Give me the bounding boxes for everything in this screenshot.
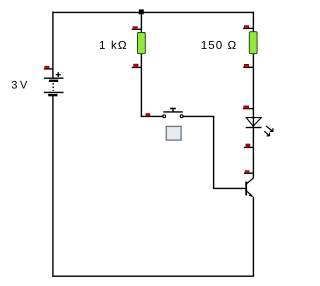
pin marker LED bottom — [244, 144, 253, 147]
wire middle column above R1 — [140, 12, 142, 33]
pin marker LED top — [243, 106, 253, 109]
pin marker R1 top — [132, 27, 142, 30]
wire to transistor base — [213, 187, 246, 189]
label 3 V — [12, 81, 28, 89]
pin marker R1 bottom — [132, 64, 142, 67]
LED D1 — [246, 118, 273, 136]
pin marker button wire — [146, 114, 150, 117]
push button S1 — [163, 109, 183, 118]
push button pad — [166, 126, 181, 140]
pin marker transistor collector — [244, 171, 253, 174]
resistor R2 150Ω — [249, 32, 257, 54]
junction node dot — [139, 9, 144, 14]
wire to button left — [141, 115, 163, 117]
wire top horizontal — [52, 11, 254, 13]
wire left vertical (battery branch upper) — [52, 12, 54, 78]
label 150 Ω — [202, 41, 236, 49]
transistor Q1 — [246, 178, 253, 197]
pin marker R2 top — [243, 26, 253, 29]
wire right column R2 to transistor collector — [252, 54, 254, 179]
wire right column above R2 — [252, 12, 254, 33]
wire emitter down — [252, 197, 254, 277]
pin marker R2 bottom — [243, 64, 253, 67]
wire bottom horizontal — [52, 275, 254, 277]
wire button column down — [213, 116, 215, 189]
wire middle column below R1 — [140, 54, 142, 117]
wire from button right — [183, 115, 214, 117]
battery pin marker (+) — [44, 66, 53, 69]
battery B1 3V — [44, 72, 64, 96]
resistor R1 1kΩ — [138, 33, 146, 54]
wire left vertical (battery branch lower) — [52, 96, 54, 277]
label 1 kΩ — [100, 41, 126, 49]
